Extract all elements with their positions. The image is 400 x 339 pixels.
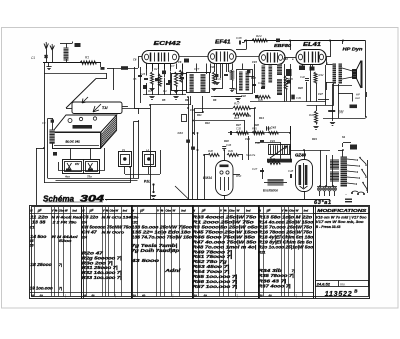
- svg-text:ω: ω: [133, 294, 136, 298]
- svg-text:Ind: Ind: [72, 209, 77, 213]
- svg-text:18 25ooo: 18 25ooo: [30, 262, 52, 267]
- svg-text:MODIFICATIONS: MODIFICATIONS: [317, 208, 367, 213]
- svg-text:Inv.: Inv.: [340, 282, 345, 286]
- svg-text:R57 1oo.ooo 7|: R57 1oo.ooo 7|: [193, 284, 238, 289]
- svg-text:ω: ω: [83, 294, 86, 298]
- svg-text:R37 4ooo 7|: R37 4ooo 7|: [258, 283, 290, 288]
- svg-text:.: .: [106, 197, 107, 203]
- svg-text:R13: R13: [246, 114, 251, 118]
- svg-text:Excitation: Excitation: [263, 189, 278, 193]
- svg-text:113522: 113522: [325, 291, 353, 298]
- svg-text:R26: R26: [288, 77, 293, 81]
- svg-text:EL41: EL41: [303, 42, 321, 48]
- svg-text:%: %: [106, 209, 109, 213]
- svg-text:C47: C47: [252, 167, 258, 171]
- svg-text:C46: C46: [255, 141, 260, 145]
- svg-text:HP Dyn: HP Dyn: [343, 47, 364, 52]
- svg-text:%: %: [285, 209, 288, 213]
- svg-text:ω: ω: [269, 294, 272, 298]
- svg-text:R21: R21: [258, 249, 265, 254]
- svg-text:C6: C6: [133, 58, 137, 62]
- svg-text:C30: C30: [210, 65, 215, 69]
- svg-text:24.6.52: 24.6.52: [316, 282, 331, 287]
- svg-text:136 74.7o.ooo 75o|W 15o: 136 74.7o.ooo 75o|W 15o: [132, 234, 193, 239]
- svg-text:W: W: [65, 209, 68, 213]
- svg-text:Obs: Obs: [229, 209, 235, 213]
- svg-text:C7: C7: [171, 64, 175, 68]
- svg-text:C33: C33: [231, 87, 236, 91]
- svg-text:N N Ooro: N N Ooro: [102, 230, 125, 234]
- svg-text:Obs: Obs: [289, 209, 295, 213]
- svg-text:C38: C38: [236, 36, 242, 40]
- svg-text:R34: R34: [309, 113, 314, 117]
- svg-text:4oo: 4oo: [64, 175, 70, 179]
- svg-text:ω: ω: [40, 294, 43, 298]
- svg-text:V17 om W 5oo mb, 3oo: V17 om W 5oo mb, 3oo: [316, 220, 364, 224]
- svg-text:13 38: 13 38: [32, 220, 46, 225]
- svg-text:C28: C28: [190, 108, 195, 112]
- svg-text:75o: 75o: [87, 175, 92, 179]
- svg-text:R5: R5: [162, 98, 166, 102]
- svg-text:W: W: [115, 209, 118, 213]
- svg-text:R49: R49: [228, 149, 233, 153]
- svg-text:2 2 FR 79o: 2 2 FR 79o: [51, 221, 77, 225]
- svg-text:C36: C36: [226, 143, 232, 147]
- svg-text:43 5ooo: 43 5ooo: [130, 258, 160, 263]
- svg-text:HP: HP: [356, 93, 360, 97]
- svg-text:C48: C48: [288, 169, 294, 173]
- svg-text:R6: R6: [185, 98, 189, 102]
- svg-text:C37: C37: [318, 92, 323, 96]
- svg-text:ω: ω: [194, 294, 197, 298]
- svg-text:C42: C42: [300, 75, 305, 79]
- svg-text:R33 1oo.ooo 7|: R33 1oo.ooo 7|: [82, 275, 122, 280]
- svg-text:C9: C9: [42, 121, 46, 125]
- svg-text:LA: LA: [146, 148, 149, 152]
- svg-text:R4: R4: [163, 89, 167, 93]
- svg-text:W: W: [237, 209, 240, 213]
- svg-text:T.U: T.U: [102, 106, 108, 110]
- svg-text:R12: R12: [251, 76, 256, 80]
- svg-text:%: %: [161, 209, 164, 213]
- svg-text:R8: R8: [213, 98, 217, 102]
- svg-text:C43: C43: [258, 81, 264, 85]
- svg-text:R2o 1o.ooo 25|1o|W 5oo: R2o 1o.ooo 25|1o|W 5oo: [258, 244, 313, 249]
- svg-text:R18: R18: [234, 116, 240, 120]
- svg-text:7g Doih 7aud|8p: 7g Doih 7aud|8p: [132, 248, 180, 253]
- svg-text:C34: C34: [270, 139, 275, 143]
- svg-text:N N oCu 134: N N oCu 134: [102, 216, 132, 220]
- svg-text:C15: C15: [252, 60, 257, 64]
- svg-text:7|: 7|: [59, 287, 62, 291]
- svg-text:C31: C31: [245, 137, 250, 141]
- svg-text:C35: C35: [236, 127, 241, 131]
- svg-text:S1: S1: [342, 135, 346, 139]
- svg-text:R35 78ooo 7|: R35 78ooo 7|: [258, 273, 294, 278]
- svg-text:7|: 7|: [59, 263, 62, 267]
- svg-text:ω: ω: [204, 294, 207, 298]
- svg-text:C8: C8: [178, 60, 182, 64]
- svg-text:Ind: Ind: [181, 209, 186, 213]
- svg-text:R10: R10: [205, 121, 210, 125]
- svg-text:R17: R17: [234, 102, 240, 106]
- svg-text:C1: C1: [30, 226, 35, 230]
- svg-text:R37: R37: [236, 123, 241, 127]
- svg-text:Obs: Obs: [165, 209, 171, 213]
- svg-text:W: W: [172, 209, 175, 213]
- svg-text:53oo: 53oo: [59, 239, 73, 243]
- svg-text:BLOC 141: BLOC 141: [66, 140, 81, 144]
- svg-text:ω: ω: [92, 294, 95, 298]
- svg-text:Ind: Ind: [123, 209, 128, 213]
- svg-text:%: %: [224, 209, 227, 213]
- svg-text:CH: CH: [82, 235, 88, 239]
- svg-text:R35: R35: [258, 98, 263, 102]
- svg-text:C44: C44: [339, 109, 344, 113]
- svg-text:Adnl: Adnl: [164, 268, 182, 273]
- svg-text:P.U.: P.U.: [144, 180, 150, 184]
- svg-text:Tesla Pa: Tesla Pa: [246, 154, 256, 157]
- svg-text:R24: R24: [256, 34, 262, 38]
- svg-text:R11: R11: [197, 113, 202, 117]
- svg-text:Obs: Obs: [59, 209, 65, 213]
- svg-text:ω: ω: [142, 294, 145, 298]
- svg-text:EF41: EF41: [215, 39, 231, 45]
- svg-text:R48: R48: [208, 149, 213, 153]
- svg-text:R2: R2: [154, 67, 158, 71]
- svg-text:C32: C32: [241, 94, 246, 98]
- svg-text:P1: P1: [122, 148, 126, 152]
- svg-text:Ind: Ind: [246, 209, 251, 213]
- svg-text:R42: R42: [319, 73, 324, 77]
- svg-text:EBF80: EBF80: [274, 43, 292, 48]
- svg-text:R14: R14: [259, 116, 264, 120]
- svg-text:C39: C39: [296, 96, 301, 100]
- svg-text:C45: C45: [271, 126, 277, 130]
- svg-text:16: 16: [30, 243, 34, 247]
- svg-text:R1: R1: [85, 56, 89, 60]
- svg-text:C24: C24: [178, 131, 184, 135]
- svg-text:19 1oo.ooo: 19 1oo.ooo: [30, 286, 53, 291]
- svg-text:%: %: [55, 209, 58, 213]
- svg-text:C1: C1: [31, 56, 35, 60]
- svg-text:CH 47: CH 47: [82, 229, 98, 234]
- svg-text:15: 15: [30, 239, 34, 243]
- svg-text:R28: R28: [298, 86, 303, 90]
- svg-text:W: W: [296, 209, 299, 213]
- svg-text:B - Presa 33.43: B - Presa 33.43: [316, 225, 341, 229]
- svg-text:Aud: Aud: [354, 96, 360, 100]
- svg-text:ω: ω: [260, 294, 263, 298]
- svg-text:R40: R40: [224, 139, 229, 143]
- svg-text:C5: C5: [133, 77, 137, 81]
- svg-text:N N 4ooE Rad: N N 4ooE Rad: [52, 216, 82, 220]
- svg-text:Ind: Ind: [304, 209, 309, 213]
- svg-text:~: ~: [345, 193, 347, 197]
- svg-text:C3 22o: C3 22o: [82, 215, 98, 220]
- svg-text:R43: R43: [312, 137, 317, 141]
- svg-text:ECH42: ECH42: [154, 41, 181, 47]
- svg-text:ω: ω: [31, 294, 34, 298]
